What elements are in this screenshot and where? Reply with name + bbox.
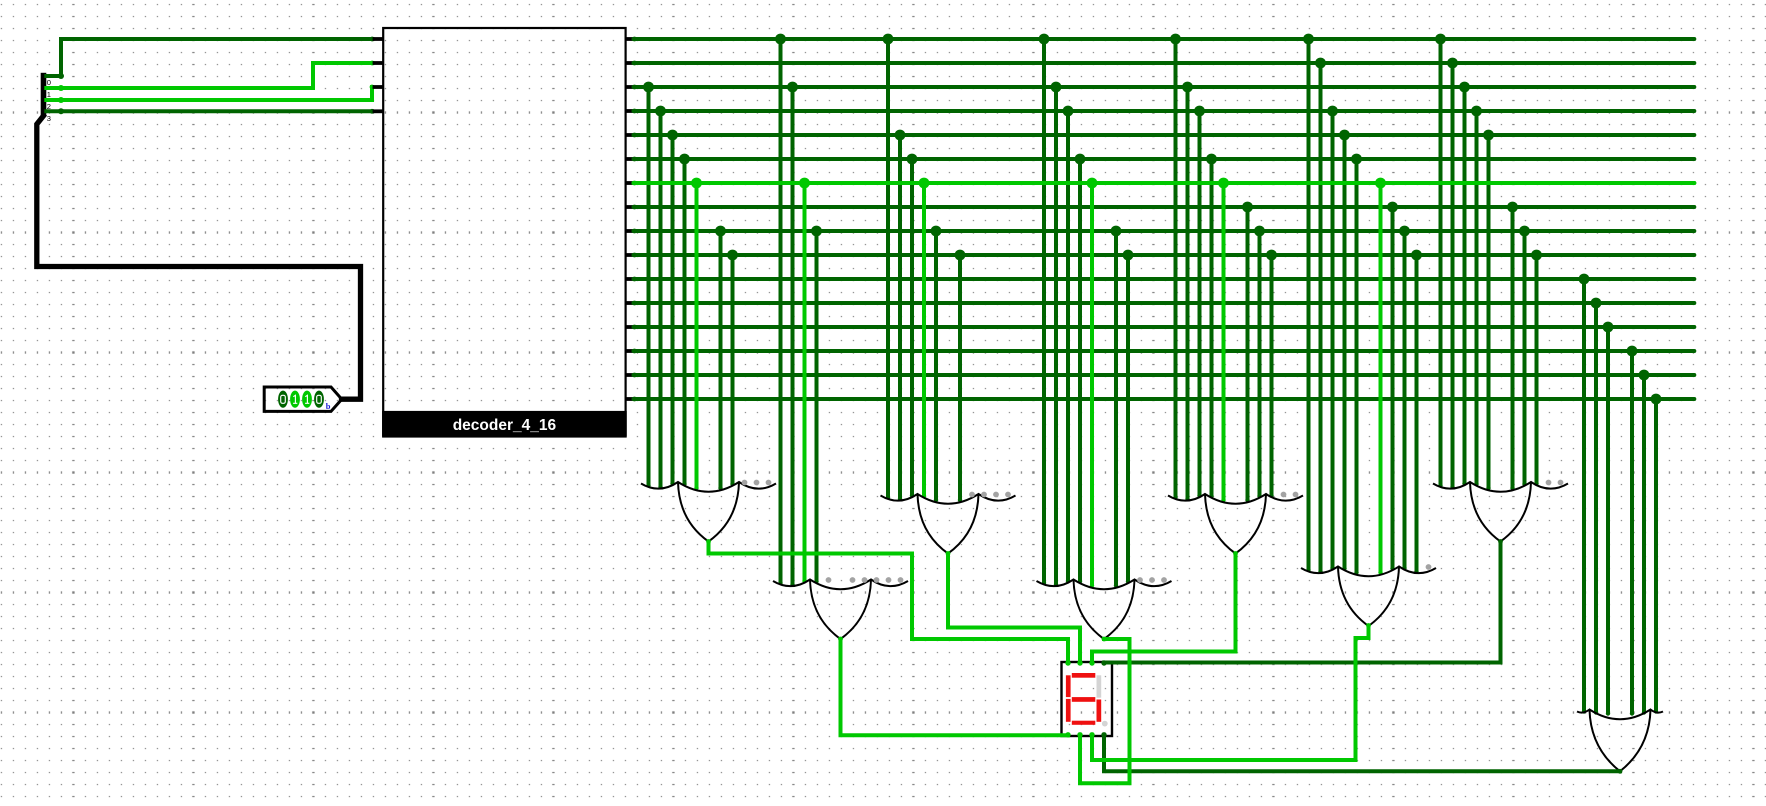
seven-segment display DISP1 showing 6 — [1062, 662, 1113, 736]
wire G1 output to display (active) — [706, 539, 1068, 663]
wire bit3 (low) splitter pin3 to decoder in3 — [46, 108, 374, 114]
junction dots for G4 taps — [1435, 34, 1542, 261]
wire G6 output to display (active) — [1080, 637, 1130, 784]
wire G2 output to display (active) — [946, 551, 1080, 663]
wire tap Q9 to G6 input (x=1128) — [1126, 255, 1130, 584]
or-gate G4 (segment b) — [1433, 480, 1568, 542]
wire bit0 (low) splitter pin0 to decoder in0 — [46, 37, 374, 79]
wire tap Q10 to G8 input (x=1584) — [1582, 279, 1586, 714]
wire tap Q4 to G2 input (x=900) — [898, 135, 902, 501]
wire Q13 from decoder output 13 — [632, 349, 1694, 354]
wire Q6 from decoder output 6 — [632, 181, 1694, 186]
wire Q3 from decoder output 3 — [632, 109, 1694, 114]
wire tap Q5 to G3 input (x=1211.5) — [1209, 159, 1213, 498]
wire tap Q12 to G8 input (x=1608) — [1606, 327, 1610, 716]
wire tap Q0 to G7 input (x=1308.5) — [1306, 39, 1310, 572]
wire tap Q13 to G8 input (x=1632) — [1630, 351, 1634, 716]
svg-text:b: b — [326, 401, 331, 411]
decoder U1 decoder_4_16 — [373, 28, 635, 437]
wire tap Q0 to G2 input (x=888) — [886, 39, 890, 500]
junction dots for G8 taps — [1579, 274, 1662, 405]
wire tap Q2 to G6 input (x=1056) — [1054, 87, 1058, 587]
input pin IN1 (binary value 0110) — [264, 387, 342, 411]
wire tap Q8 to G4 input (x=1524.5) — [1522, 231, 1526, 486]
junction dots for G6 taps — [1039, 34, 1134, 261]
wire tap Q8 to G1 input (x=720.5) — [718, 231, 722, 490]
svg-text:3: 3 — [47, 114, 51, 123]
wire tap Q8 to G6 input (x=1116) — [1114, 231, 1118, 588]
display input pin dots — [1065, 660, 1106, 737]
or-gate G5 (segment e) — [773, 577, 908, 639]
wire tap Q7 to G7 input (x=1392.5) — [1390, 207, 1394, 571]
wire tap Q3 to G1 input (x=660.5) — [658, 111, 662, 489]
or-gate G8 (dp / >9 detect) — [1577, 710, 1663, 772]
wire tap Q5 to G2 input (x=912) — [910, 159, 914, 498]
wire Q10 from decoder output 10 — [632, 277, 1694, 282]
wire tap Q9 to G2 input (x=960) — [958, 255, 962, 502]
wire tap Q1 to G7 input (x=1320.5) — [1318, 63, 1322, 574]
wire Q12 from decoder output 12 — [632, 325, 1694, 330]
or-gate G2 (segment f) — [881, 492, 1016, 554]
wire Q2 from decoder output 2 — [632, 85, 1694, 90]
wire tap Q6 (active) to G3 input (x=1223.5) — [1221, 183, 1225, 502]
wire Q5 from decoder output 5 — [632, 157, 1694, 162]
wire tap Q2 to G3 input (x=1187.5) — [1185, 87, 1189, 501]
wire tap Q6 (active) to G7 input (x=1380.5) — [1378, 183, 1382, 575]
wire tap Q4 to G7 input (x=1344.5) — [1342, 135, 1346, 571]
wire tap Q7 to G4 input (x=1512.5) — [1510, 207, 1514, 490]
or-gate G1 (segment g) — [641, 480, 776, 542]
wire tap Q0 to G3 input (x=1175.5) — [1173, 39, 1177, 500]
wire tap Q0 to G6 input (x=1044) — [1042, 39, 1046, 585]
wire tap Q6 (active) to G2 input (x=924) — [922, 183, 926, 498]
or-gate G3 (segment a) — [1168, 492, 1303, 554]
junction dots for G5 taps — [775, 34, 822, 237]
wire tap Q5 to G1 input (x=684.5) — [682, 159, 686, 486]
wire Q7 from decoder output 7 — [632, 205, 1694, 210]
wire Q1 from decoder output 1 — [632, 61, 1694, 66]
or-gate G6 (segment d) — [1037, 577, 1172, 639]
junction dots for G2 taps — [883, 34, 966, 261]
wire bit1 (high) splitter pin1 to decoder in1 — [46, 61, 374, 91]
wire tap Q3 to G7 input (x=1332.5) — [1330, 111, 1334, 570]
wire G4 output to display (inactive) — [1104, 539, 1503, 662]
wire tap Q9 to G4 input (x=1536.5) — [1534, 255, 1538, 486]
svg-text:0: 0 — [47, 78, 51, 87]
splitter S1 (1x4 bits) — [41, 73, 51, 123]
wire tap Q0 to G4 input (x=1440.5) — [1438, 39, 1442, 488]
wire Q11 from decoder output 11 — [632, 301, 1694, 306]
wire tap Q5 to G6 input (x=1080) — [1078, 159, 1082, 584]
wire Q9 from decoder output 9 — [632, 253, 1694, 258]
wire tap Q7 to G3 input (x=1247.5) — [1245, 207, 1249, 502]
wire tap Q3 to G3 input (x=1199.5) — [1197, 111, 1201, 498]
wire tap Q9 to G3 input (x=1271.5) — [1269, 255, 1273, 498]
wire tap Q4 to G4 input (x=1488.5) — [1486, 135, 1490, 490]
bus wire from input to splitter — [37, 116, 361, 399]
wire tap Q5 to G7 input (x=1356.5) — [1354, 159, 1358, 575]
wire tap Q8 to G2 input (x=936) — [934, 231, 938, 502]
wire tap Q8 to G3 input (x=1259.5) — [1257, 231, 1261, 498]
wire bit2 (high) splitter pin2 to decoder in2 — [46, 85, 374, 103]
wire Q8 from decoder output 8 — [632, 229, 1694, 234]
wire Q15 from decoder output 15 — [632, 397, 1694, 402]
wire tap Q2 to G4 input (x=1464.5) — [1462, 87, 1466, 486]
wire tap Q9 to G1 input (x=732.5) — [730, 255, 734, 486]
svg-text:1: 1 — [47, 90, 51, 99]
wire tap Q6 (active) to G1 input (x=696.5) — [694, 183, 698, 490]
wire tap Q6 (active) to G6 input (x=1092) — [1090, 183, 1094, 588]
wire tap Q8 to G5 input (x=816.5) — [814, 231, 818, 584]
wire tap Q2 to G1 input (x=648.5) — [646, 87, 650, 488]
or-gate G7 (segment c) — [1301, 564, 1436, 626]
wire G5 output to display (active) — [838, 637, 1068, 736]
junction dots for G1 taps — [643, 82, 738, 261]
junction dots for G3 taps — [1170, 34, 1277, 261]
wire Q6 (active, repaint over crossings) — [634, 181, 1695, 185]
svg-text:decoder_4_16: decoder_4_16 — [453, 417, 557, 434]
wire G7 output to display (active) — [1092, 623, 1371, 760]
wire tap Q0 to G5 input (x=780.5) — [778, 39, 782, 585]
wire tap Q1 to G4 input (x=1452.5) — [1450, 63, 1454, 489]
wire tap Q4 to G1 input (x=672.5) — [670, 135, 674, 486]
wire tap Q3 to G6 input (x=1068) — [1066, 111, 1070, 583]
wire tap Q2 to G5 input (x=792.5) — [790, 87, 794, 587]
wire tap Q11 to G8 input (x=1596) — [1594, 303, 1598, 715]
wire tap Q3 to G4 input (x=1476.5) — [1474, 111, 1478, 486]
wire tap Q15 to G8 input (x=1656) — [1654, 399, 1658, 714]
wire Q14 from decoder output 14 — [632, 373, 1694, 378]
wire tap Q9 to G7 input (x=1416.5) — [1414, 255, 1418, 574]
wire G8 output to display (inactive) — [1104, 735, 1622, 774]
junction dots for G7 taps — [1303, 34, 1422, 261]
wire tap Q8 to G7 input (x=1404.5) — [1402, 231, 1406, 570]
wire Q0 from decoder output 0 — [632, 37, 1694, 42]
wire Q4 from decoder output 4 — [632, 133, 1694, 138]
wire tap Q6 (active) to G5 input (x=804.5) — [802, 183, 806, 583]
wire tap Q14 to G8 input (x=1644) — [1642, 375, 1646, 715]
wire G3 output to display (active) — [1092, 551, 1238, 663]
